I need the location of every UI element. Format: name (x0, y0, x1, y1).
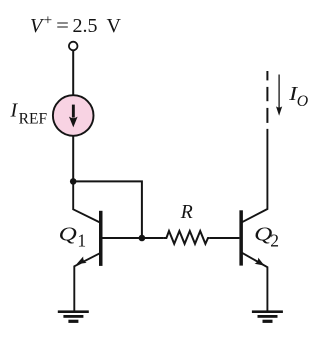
ground right (252, 310, 283, 323)
ground left (58, 310, 89, 323)
svg-text:R: R (180, 201, 193, 223)
output current arrow IO (276, 75, 282, 116)
Q2 emitter wire (242, 253, 267, 311)
svg-text:O: O (297, 93, 308, 110)
wire resistor to Q2 base (209, 237, 239, 239)
Q1 emitter arrow (77, 257, 87, 265)
supply terminal circle (69, 42, 78, 51)
wire terminal to current source (72, 50, 74, 95)
node A junction dot (70, 178, 77, 185)
svg-text:2.5: 2.5 (73, 15, 98, 37)
svg-text:=: = (56, 15, 69, 37)
Q2 emitter arrow (255, 258, 265, 266)
svg-text:1: 1 (77, 231, 86, 251)
wire current source to node A (72, 136, 74, 182)
transistor Q1 base bar (99, 211, 103, 266)
resistor R (164, 231, 210, 244)
svg-text:IREF: IREF (10, 100, 48, 128)
Q1 collector wire (73, 181, 100, 222)
svg-text:Q: Q (59, 224, 78, 246)
Q2 collector wire (242, 129, 267, 222)
dashed load line (266, 71, 268, 123)
svg-text:2: 2 (270, 231, 279, 251)
supply label V+ = 2.5 V (30, 11, 122, 37)
wire node A to base node (feedback) (73, 181, 142, 238)
label Q1 (59, 224, 87, 251)
svg-text:V: V (107, 15, 122, 37)
label Q2 (254, 224, 279, 251)
transistor Q2 base bar (239, 210, 243, 265)
Q1 base wire (103, 237, 164, 239)
svg-text:+: + (44, 11, 53, 28)
Q1 emitter wire (74, 253, 100, 311)
base node junction dot (139, 235, 146, 242)
label IO (288, 83, 308, 110)
current source IREF (53, 95, 94, 136)
current source arrow (69, 105, 78, 128)
